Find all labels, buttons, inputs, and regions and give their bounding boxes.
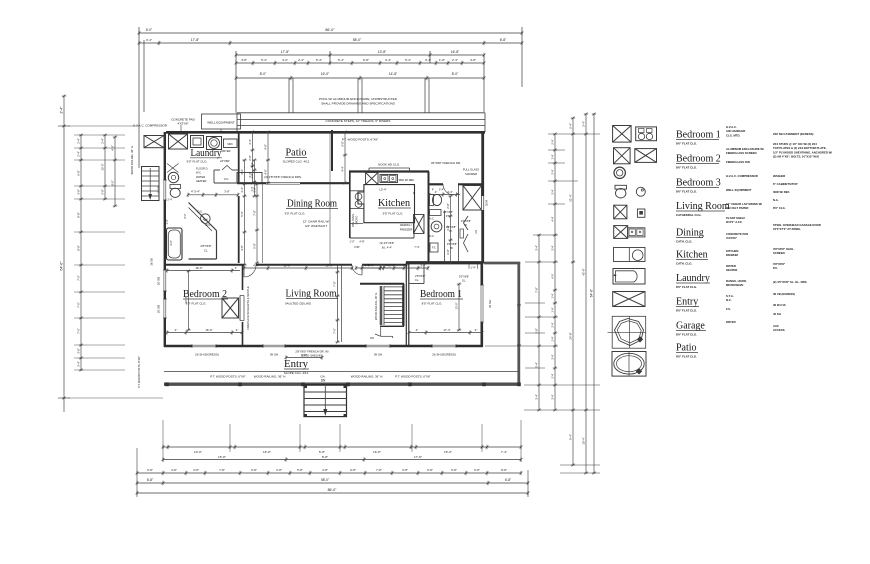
svg-text:SINK: SINK	[227, 143, 233, 146]
dimension extension drops top	[288, 78, 290, 113]
french door patio sill	[266, 181, 300, 183]
svg-text:64'-0": 64'-0"	[60, 261, 64, 271]
deck joint ticks	[517, 304, 521, 306]
svg-text:64'-8": 64'-8"	[590, 288, 594, 297]
svg-text:3'-4": 3'-4"	[551, 354, 555, 359]
svg-text:6'-8": 6'-8"	[474, 468, 480, 472]
window south wall	[192, 344, 216, 348]
svg-text:4'-4": 4'-4"	[364, 264, 370, 268]
wall kitchen east	[428, 172, 430, 264]
svg-text:Dining: Dining	[676, 228, 704, 239]
svg-text:8'-0": 8'-0"	[111, 180, 115, 186]
svg-text:4": 4"	[236, 328, 239, 332]
svg-text:FULL GLASS: FULL GLASS	[463, 168, 479, 172]
svg-text:4'-4": 4'-4"	[551, 216, 555, 221]
dim entry horizontal	[286, 357, 322, 359]
dimension line top second	[139, 42, 522, 44]
svg-text:6'-0": 6'-0"	[146, 28, 152, 32]
svg-text:16'-0": 16'-0"	[205, 328, 212, 332]
svg-text:8'0" FLAT CLG.: 8'0" FLAT CLG.	[676, 333, 697, 337]
deck north edge	[484, 262, 520, 265]
svg-text:DN: DN	[370, 336, 374, 340]
wall mid horizontal	[164, 264, 244, 266]
svg-text:4'-4": 4'-4"	[253, 264, 259, 268]
dim chain dining vertical	[256, 184, 258, 263]
svg-text:MICRO: MICRO	[355, 216, 359, 225]
svg-text:1'-4": 1'-4"	[551, 307, 555, 312]
svg-text:WOOD RAILING, 36" H.: WOOD RAILING, 36" H.	[130, 145, 134, 174]
svg-text:CONCRETE STEPS, 12" TREADS, 6": CONCRETE STEPS, 12" TREADS, 6" RISERS	[326, 119, 391, 123]
door swing hall bath	[443, 184, 454, 195]
west wall	[164, 132, 166, 347]
legend symbol round toilet	[614, 167, 625, 178]
wall bedroom1 north	[406, 261, 482, 263]
svg-text:8'0" FLAT CLG.: 8'0" FLAT CLG.	[676, 166, 697, 170]
svg-text:4'-0": 4'-0"	[264, 169, 268, 175]
svg-text:58'-0": 58'-0"	[353, 38, 362, 42]
svg-text:Laundry: Laundry	[676, 273, 710, 284]
svg-text:3'-4": 3'-4"	[240, 169, 244, 175]
svg-text:Kitchen: Kitchen	[676, 250, 708, 261]
wall bedroom1 west double	[405, 262, 407, 346]
svg-text:VAULTED CEILING: VAULTED CEILING	[285, 302, 312, 306]
east wall	[481, 132, 484, 264]
svg-text:26 SH (EGRESS): 26 SH (EGRESS)	[195, 353, 219, 357]
wall hall-bath south	[406, 262, 483, 264]
svg-text:16'-8": 16'-8"	[451, 50, 460, 54]
svg-text:3/4" WAINSCOT: 3/4" WAINSCOT	[305, 224, 327, 228]
svg-text:15'-8": 15'-8"	[218, 455, 226, 459]
bedroom1 closet	[410, 283, 425, 285]
svg-text:4'-8": 4'-8"	[264, 144, 268, 150]
svg-text:Bedroom 3: Bedroom 3	[676, 178, 721, 189]
svg-text:2'-8": 2'-8"	[248, 155, 252, 161]
svg-text:1'-4": 1'-4"	[250, 162, 254, 167]
bottom dim line C	[137, 472, 521, 474]
right dim overall	[593, 114, 595, 473]
bottom extension drops	[136, 448, 138, 497]
svg-text:CL.: CL.	[204, 249, 209, 253]
svg-text:5'-8": 5'-8"	[297, 468, 303, 472]
svg-text:H.V.A.C. COMPRESSOR: H.V.A.C. COMPRESSOR	[133, 124, 168, 128]
svg-text:5'-0": 5'-0"	[240, 211, 244, 217]
dimension line top fifth posts	[236, 77, 484, 79]
svg-text:3'-8": 3'-8"	[224, 190, 230, 194]
svg-text:10'-4": 10'-4"	[582, 437, 586, 444]
svg-text:(2) AB 4"X6", BOLTS, 10"X10" W: (2) AB 4"X6", BOLTS, 10"X10" W/O	[773, 155, 820, 159]
east wall upper windows	[481, 196, 484, 210]
svg-text:H.V.A.C. COMPRESSOR: H.V.A.C. COMPRESSOR	[726, 174, 758, 178]
svg-text:8'0" CLG.: 8'0" CLG.	[773, 206, 786, 210]
kitchen sink double	[380, 175, 398, 183]
dimension line top overall 86ft	[139, 32, 522, 34]
svg-text:3'-8": 3'-8"	[446, 225, 450, 230]
svg-text:3'-4": 3'-4"	[420, 264, 426, 268]
legend symbol crossed box 1	[613, 126, 632, 143]
svg-text:45'-8": 45'-8"	[582, 268, 586, 275]
window south wall	[366, 344, 390, 348]
svg-text:8'0" FLAT CLG.: 8'0" FLAT CLG.	[676, 190, 697, 194]
svg-text:5'-4": 5'-4"	[338, 58, 344, 62]
svg-text:7'-8": 7'-8"	[333, 281, 337, 287]
svg-text:CATHEDRAL CLG.: CATHEDRAL CLG.	[676, 213, 702, 217]
svg-text:17'-4": 17'-4"	[443, 328, 450, 332]
window south wall	[432, 344, 456, 348]
wall laundry east	[238, 132, 240, 183]
kitchen island	[358, 185, 415, 223]
wall bedroom2 east	[242, 265, 244, 290]
laundry sink box	[224, 139, 238, 148]
svg-text:P.C.: P.C.	[773, 266, 778, 270]
svg-text:3'-8": 3'-8"	[341, 141, 345, 147]
svg-text:POOL W/ ALUMINUM ENCLOSURE, UN: POOL W/ ALUMINUM ENCLOSURE, UNOBSTRUCTED	[319, 97, 398, 101]
svg-text:HEATER: HEATER	[726, 268, 737, 272]
svg-text:15'-0": 15'-0"	[325, 264, 332, 268]
svg-text:13'-4": 13'-4"	[184, 296, 188, 303]
svg-text:9'-4": 9'-4"	[569, 434, 573, 440]
svg-text:6'-8": 6'-8"	[147, 468, 153, 472]
svg-text:2'8"X6'8": 2'8"X6'8"	[415, 274, 425, 278]
left dim chain	[80, 135, 82, 370]
right dim chain 2	[554, 134, 556, 410]
svg-text:DRYER: DRYER	[726, 320, 736, 324]
svg-text:W 8'0" A.F.F.: W 8'0" A.F.F.	[726, 220, 743, 224]
svg-text:17'-8": 17'-8"	[281, 50, 290, 54]
svg-text:36 SH: 36 SH	[488, 300, 492, 308]
svg-text:WELL EQUIPMENT: WELL EQUIPMENT	[207, 121, 235, 125]
svg-text:3'-4": 3'-4"	[146, 38, 152, 42]
svg-text:CL.: CL.	[415, 278, 419, 282]
svg-text:36 SH: 36 SH	[270, 353, 278, 357]
svg-text:2'-4": 2'-4"	[452, 58, 458, 62]
legend symbol crossed box 5	[614, 205, 627, 219]
svg-text:1'-4": 1'-4"	[551, 293, 555, 298]
kitchen south counter	[350, 237, 414, 239]
svg-text:26 SH (EGRESS): 26 SH (EGRESS)	[432, 353, 456, 357]
svg-text:6'-8": 6'-8"	[350, 468, 356, 472]
svg-text:17'-8": 17'-8"	[191, 38, 200, 42]
svg-text:86'-0": 86'-0"	[325, 28, 335, 32]
svg-text:7'-0": 7'-0"	[77, 328, 81, 334]
svg-text:7'-4": 7'-4"	[501, 450, 507, 454]
hall closet lines	[444, 211, 446, 264]
svg-text:36W W/ REF.: 36W W/ REF.	[398, 178, 414, 182]
svg-text:FIBERGLASS ION: FIBERGLASS ION	[726, 160, 750, 164]
dim extension dining center	[329, 132, 331, 265]
vc closet	[213, 170, 215, 183]
svg-text:30W W/ REF.: 30W W/ REF.	[773, 190, 790, 194]
svg-text:9'0" FLAT CLG.: 9'0" FLAT CLG.	[285, 212, 306, 216]
svg-text:12'-8": 12'-8"	[283, 264, 290, 268]
svg-text:N.A.: N.A.	[773, 198, 779, 202]
stair landing below	[380, 326, 382, 336]
wall hall north	[429, 183, 444, 185]
water heater circle	[168, 172, 178, 182]
door swing hall-stairs	[352, 265, 362, 275]
dim chain laundry right	[244, 160, 246, 265]
deck east edge	[517, 262, 520, 384]
svg-text:Patio: Patio	[286, 148, 307, 159]
dim stair top	[356, 267, 404, 269]
legend symbol garden tub	[612, 352, 646, 377]
svg-text:4'-8": 4'-8"	[470, 58, 476, 62]
svg-text:2'8"X6'8": 2'8"X6'8"	[200, 244, 211, 248]
svg-text:1'-4": 1'-4"	[240, 187, 244, 193]
svg-text:N.C.: N.C.	[726, 298, 732, 302]
left extension lines to plan	[74, 134, 125, 136]
svg-text:1'-4": 1'-4"	[250, 186, 254, 191]
svg-text:36"X80" FRENCH DR.: 36"X80" FRENCH DR.	[431, 161, 461, 165]
svg-text:7'-8": 7'-8"	[219, 468, 225, 472]
svg-text:6'-8": 6'-8"	[500, 38, 507, 42]
washing machine laundry	[207, 137, 222, 150]
legend symbol small circle	[636, 187, 645, 196]
svg-text:D.S.: D.S.	[197, 210, 202, 214]
kitchen plant shelf	[369, 167, 410, 169]
svg-text:L5'-4": L5'-4"	[379, 188, 386, 192]
svg-text:WOOD RAILING, 36" H.: WOOD RAILING, 36" H.	[351, 375, 384, 379]
svg-text:Dining Room: Dining Room	[287, 199, 337, 210]
svg-text:FREEZER: FREEZER	[400, 228, 413, 232]
svg-text:4'X3'X6": 4'X3'X6"	[177, 122, 188, 126]
svg-text:FIREPLACE W/ HEARTH & MANTLE: FIREPLACE W/ HEARTH & MANTLE	[246, 286, 250, 330]
svg-text:14'-8": 14'-8"	[389, 72, 398, 76]
svg-text:FLOOR D.: FLOOR D.	[196, 167, 209, 171]
svg-text:2'-4": 2'-4"	[389, 264, 395, 268]
legend symbol crossed box 6	[614, 226, 628, 239]
svg-text:2'-8": 2'-8"	[276, 468, 282, 472]
svg-text:SHALL PROVIDE DRAWING AND SPEC: SHALL PROVIDE DRAWING AND SPECIFICATIONS	[321, 102, 395, 106]
svg-text:4'-8": 4'-8"	[240, 245, 244, 251]
svg-text:3'-4": 3'-4"	[535, 394, 539, 400]
svg-text:4": 4"	[416, 328, 419, 332]
svg-text:4'-0": 4'-0"	[551, 273, 555, 278]
svg-text:3'-4": 3'-4"	[582, 121, 586, 127]
svg-text:2'-4": 2'-4"	[168, 199, 173, 202]
svg-text:3'-8": 3'-8"	[101, 189, 105, 195]
svg-text:FIBERGLASS SCREEN: FIBERGLASS SCREEN	[726, 151, 756, 155]
svg-text:N.C.: N.C.	[430, 218, 435, 221]
svg-text:V.C.: V.C.	[224, 177, 230, 181]
bedroom1 east window	[480, 285, 483, 322]
svg-text:(2) SD SHELVES: (2) SD SHELVES	[301, 354, 323, 358]
south wall	[164, 345, 483, 348]
svg-text:V.30": V.30"	[354, 245, 360, 249]
window south wall	[263, 344, 285, 348]
water heater box laundry	[191, 136, 204, 148]
svg-text:P.T. WOOD POSTS, 6"X6": P.T. WOOD POSTS, 6"X6"	[137, 356, 141, 388]
svg-text:REFRIG./: REFRIG./	[400, 223, 412, 227]
well equipment box	[202, 114, 241, 129]
svg-text:9'0" FLAT CLG.: 9'0" FLAT CLG.	[383, 212, 404, 216]
svg-text:2'-4": 2'-4"	[551, 322, 555, 327]
svg-text:16'-8": 16'-8"	[263, 450, 271, 454]
svg-text:3'-8": 3'-8"	[402, 468, 408, 472]
svg-text:13'-8": 13'-8"	[378, 50, 387, 54]
svg-text:9'0" FLAT CLG.: 9'0" FLAT CLG.	[187, 160, 208, 164]
svg-text:N.C.: N.C.	[430, 235, 435, 238]
svg-text:7'-8": 7'-8"	[535, 287, 539, 293]
svg-text:3'-0": 3'-0"	[169, 240, 173, 246]
svg-text:Garage: Garage	[676, 321, 705, 332]
bedroom1 east wall	[480, 262, 483, 347]
svg-text:21'-4": 21'-4"	[569, 194, 573, 201]
legend symbol crossed box 2b	[635, 149, 657, 163]
legend symbol range	[614, 248, 646, 262]
dim chain patio inner vertical	[267, 132, 269, 183]
svg-text:6'-8": 6'-8"	[77, 170, 81, 176]
svg-text:3'-4": 3'-4"	[551, 189, 555, 194]
svg-text:2'-4": 2'-4"	[551, 169, 555, 174]
svg-text:4'-8": 4'-8"	[171, 468, 177, 472]
hall bath toilet	[430, 195, 434, 206]
bottom dim line D	[137, 482, 528, 484]
svg-text:Living Room: Living Room	[286, 289, 337, 300]
svg-text:Bedroom 2: Bedroom 2	[183, 289, 227, 300]
svg-text:3'-4": 3'-4"	[385, 58, 391, 62]
dim chain hall vertical	[450, 196, 452, 263]
svg-text:20 SB: 20 SB	[157, 277, 161, 285]
hvac compressor pad	[144, 136, 164, 148]
svg-text:7'-0": 7'-0"	[77, 302, 81, 308]
svg-text:6'-0": 6'-0"	[184, 213, 187, 218]
svg-text:4": 4"	[475, 328, 478, 332]
svg-text:36 SH: 36 SH	[374, 353, 382, 357]
svg-text:6'-8": 6'-8"	[427, 468, 433, 472]
svg-text:5'-4": 5'-4"	[316, 58, 322, 62]
dim chain patio right	[344, 132, 346, 183]
svg-text:W.C.: W.C.	[205, 223, 211, 227]
svg-text:NOOK HD CLG.: NOOK HD CLG.	[378, 163, 400, 167]
svg-text:4": 4"	[175, 328, 178, 332]
svg-text:2'-4": 2'-4"	[551, 373, 555, 378]
entry steps center line with down arrow	[324, 386, 326, 412]
svg-text:5'-8": 5'-8"	[253, 243, 257, 249]
svg-text:P.T. WOOD POSTS, 6"X6": P.T. WOOD POSTS, 6"X6"	[395, 375, 430, 379]
svg-text:3'-4": 3'-4"	[535, 245, 539, 251]
porch south edge	[164, 383, 520, 386]
svg-text:WATER: WATER	[196, 175, 205, 179]
dim chain patio left vertical	[252, 132, 254, 183]
svg-text:Bedroom 1: Bedroom 1	[420, 289, 462, 300]
svg-text:SLOPED CLG. 4/12: SLOPED CLG. 4/12	[283, 160, 310, 164]
svg-text:4": 4"	[235, 267, 237, 270]
svg-text:4'-4": 4'-4"	[447, 190, 453, 194]
svg-text:3'-8": 3'-8"	[77, 189, 81, 195]
right dim chain inner	[538, 235, 540, 410]
svg-text:5'-4": 5'-4"	[405, 58, 411, 62]
misc dim marks upper laundry	[254, 160, 256, 196]
svg-text:40 SH: 40 SH	[773, 312, 781, 316]
svg-text:HEATER: HEATER	[196, 179, 206, 183]
svg-text:2'8"X6'8": 2'8"X6'8"	[443, 211, 453, 214]
wall patio east / kitchen west upper	[331, 130, 333, 171]
svg-text:4'-0": 4'-0"	[282, 58, 288, 62]
svg-text:36 VB (EGRESS): 36 VB (EGRESS)	[773, 292, 795, 296]
svg-text:5'-4": 5'-4"	[535, 362, 539, 368]
svg-text:Kitchen: Kitchen	[378, 198, 410, 209]
svg-text:3034: 3034	[485, 199, 489, 206]
svg-text:2'-4": 2'-4"	[569, 123, 573, 129]
svg-text:36 W-C16: 36 W-C16	[773, 303, 786, 307]
wall kitchen west	[349, 172, 351, 239]
stair living room	[380, 286, 383, 325]
dimension line top third	[236, 54, 484, 56]
svg-text:BI., 4'-4": BI., 4'-4"	[382, 246, 392, 250]
svg-text:4": 4"	[413, 192, 415, 195]
svg-text:F.S.: F.S.	[726, 307, 731, 311]
svg-text:5'-4": 5'-4"	[261, 58, 267, 62]
svg-text:BI.: BI.	[450, 246, 453, 250]
left dim overall 64ft	[63, 96, 65, 412]
svg-text:1'-8": 1'-8"	[439, 58, 445, 62]
svg-text:SLOPE CLG. 4/12: SLOPE CLG. 4/12	[284, 371, 309, 375]
svg-text:16'-0": 16'-0"	[195, 266, 202, 270]
svg-text:1'-4": 1'-4"	[551, 154, 555, 159]
toilet left bath	[170, 185, 181, 189]
svg-text:DD/WHM: DD/WHM	[726, 253, 738, 257]
patio storage box	[237, 173, 262, 184]
dim bedroom1 top	[362, 267, 428, 269]
svg-text:(3) 2'0"X6'8": (3) 2'0"X6'8"	[380, 241, 395, 245]
svg-text:3'0"X6'8": 3'0"X6'8"	[459, 275, 469, 279]
svg-text:DBL OVEN,: DBL OVEN,	[351, 213, 355, 227]
legend symbol washer dryer pair	[636, 127, 657, 141]
refrigerator crossed box	[414, 215, 425, 234]
dim bedroom2 inner	[167, 332, 242, 334]
svg-text:7'-8": 7'-8"	[253, 210, 257, 216]
bottom dim line A	[163, 446, 521, 448]
legend symbol crossed rect garage	[613, 292, 645, 307]
bathtub left	[167, 228, 183, 260]
svg-text:4": 4"	[432, 189, 434, 192]
svg-text:Bedroom 1: Bedroom 1	[676, 130, 721, 141]
svg-text:20 SB: 20 SB	[157, 305, 161, 313]
hall washer circle	[431, 221, 442, 232]
svg-text:(2) 3'0"X6'8" SL. GL. DRS.: (2) 3'0"X6'8" SL. GL. DRS.	[773, 280, 808, 284]
svg-text:16'0"X7'0" AT PANEL: 16'0"X7'0" AT PANEL	[773, 227, 801, 231]
svg-text:8'-8": 8'-8"	[77, 212, 81, 218]
svg-text:30# FELT PAPER: 30# FELT PAPER	[726, 206, 748, 210]
svg-text:1'-4": 1'-4"	[551, 336, 555, 341]
svg-text:3'-8": 3'-8"	[193, 468, 199, 472]
svg-text:6'-8": 6'-8"	[505, 478, 511, 482]
left extension ticks	[64, 125, 140, 127]
kitchen west counter	[363, 191, 365, 209]
svg-text:2'0"X6'8": 2'0"X6'8"	[447, 242, 457, 246]
svg-text:36 SB: 36 SB	[150, 258, 154, 266]
svg-text:6'-8": 6'-8"	[363, 58, 369, 62]
entry steps	[304, 385, 347, 417]
svg-text:SCREEN: SCREEN	[773, 251, 785, 255]
svg-text:8'0" FLAT CLG.: 8'0" FLAT CLG.	[422, 302, 443, 306]
svg-text:3'-4": 3'-4"	[551, 394, 555, 399]
svg-text:3'-4": 3'-4"	[77, 361, 81, 367]
svg-text:7'-4": 7'-4"	[414, 245, 419, 249]
svg-text:4'-8": 4'-8"	[322, 468, 328, 472]
svg-text:WOOD RAILING, 36" H.: WOOD RAILING, 36" H.	[254, 375, 287, 379]
under stair closet diagonal	[189, 203, 217, 231]
svg-text:13'-0": 13'-0"	[455, 302, 459, 309]
svg-text:8'-0": 8'-0"	[260, 72, 267, 76]
svg-text:(3) 2'8"X6'8" FRENCH DRS.: (3) 2'8"X6'8" FRENCH DRS.	[264, 175, 302, 179]
svg-text:6'-8": 6'-8"	[251, 468, 257, 472]
shower drain circle	[201, 214, 211, 224]
dim chain kitchen-hall horizontal	[429, 194, 460, 196]
legend symbol bathtub	[613, 269, 645, 285]
hall bath vanity	[430, 210, 442, 216]
left dim inner1	[104, 135, 106, 199]
